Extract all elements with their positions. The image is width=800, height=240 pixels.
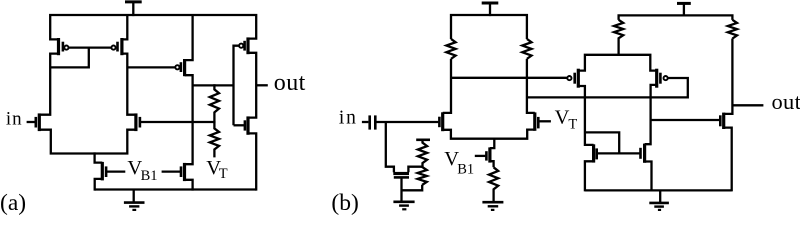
wire common source M10/M11: [443, 130, 535, 139]
wire mirror gates M1-M2: [69, 46, 112, 48]
nmos M9 (second stage sink): [183, 163, 186, 181]
pmos M2 (mirror right): [120, 38, 123, 55]
wire M15 drain down to M17: [645, 85, 657, 144]
wire node A down to M10 drain: [443, 59, 451, 113]
ground symbol (a): [133, 190, 135, 203]
wire out tick (a): [256, 84, 268, 86]
svg-text:V: V: [555, 106, 570, 128]
svg-text:(a): (a): [0, 190, 26, 216]
wire C1 to M10 gate: [375, 121, 438, 123]
pmos M1 (diode-connected mirror left): [57, 38, 60, 55]
ground symbol bias network: [393, 201, 414, 204]
resistor R9 (bias chain lower): [418, 167, 427, 185]
nmos M4 (input pair right): [134, 113, 137, 131]
resistor R3 (load left): [446, 39, 455, 59]
wire second stage out to M7/M8 gates node: [193, 84, 234, 86]
wire in tick (b): [362, 121, 369, 123]
nmos M3 (input pair left): [38, 113, 41, 131]
resistor R1 (VT divider top): [210, 84, 219, 123]
resistor R4 (load right): [522, 39, 531, 59]
resistor R7 (output load): [728, 20, 737, 39]
wire mirror gates M16-M17: [598, 152, 641, 154]
pmos M7 (output stage top): [246, 37, 249, 54]
wire M2 drain rail down to M4 drain: [122, 54, 136, 115]
pmos M5 (second stage): [183, 59, 186, 76]
wire node B to M15 gate: [527, 78, 688, 97]
wire common source line second pair: [578, 55, 656, 71]
svg-text:T: T: [219, 166, 228, 182]
wire M8 source to ground corner: [248, 133, 256, 190]
wire M4 gate to R1-R2 node: [141, 121, 215, 123]
power rail VDD (b right): [619, 15, 733, 20]
nmos M11 (VT device b): [533, 112, 536, 130]
wire output node (a): [248, 53, 256, 118]
nmos M17 (mirror out): [643, 144, 646, 163]
svg-text:B1: B1: [457, 162, 474, 178]
nmos M8 (output stage bottom): [246, 116, 249, 134]
wire M12 source to R5: [490, 161, 494, 167]
wire mirror diode connection (M1 drain to gates): [50, 47, 89, 68]
wire input node down to M13: [386, 122, 394, 172]
nmos M18 (output device b): [722, 113, 725, 129]
wire ground line (b): [585, 189, 732, 191]
wire M9 source to ground: [185, 180, 193, 191]
power rail VDD (a) with drops to M1/M7 sources: [50, 15, 256, 39]
nmos M12 (tail b): [488, 147, 491, 162]
nmos M10 (input device b): [441, 112, 444, 131]
svg-text:(b): (b): [331, 190, 358, 216]
wire VB1 to M9 gate: [162, 170, 181, 172]
resistor R2 (VT divider bottom): [210, 121, 219, 157]
wire node B down to M11 drain: [527, 59, 535, 113]
wire M2 drain to M5 gate: [127, 66, 175, 68]
capacitor C1 input: [368, 115, 371, 129]
wire M16 source to ground: [585, 161, 594, 191]
wire gate link vertical to output devices: [234, 46, 240, 126]
wire out tick (b): [732, 104, 763, 106]
power rail VDD (b left): [451, 15, 527, 39]
wire M14 drain down to M16: [578, 86, 593, 145]
VDD supply symbol (a): [125, 0, 142, 3]
wire tail node (M3/M4 sources): [39, 130, 136, 154]
wire bias chain bottom to M13 gate/ground: [402, 185, 423, 191]
nmos M16 (mirror diode): [592, 144, 595, 162]
VDD supply symbol (b right): [677, 2, 691, 5]
svg-text:in: in: [6, 109, 23, 130]
nmos M6 (tail current source): [95, 152, 103, 162]
wire output node (b): [724, 39, 733, 114]
resistor R6 (pair tail): [614, 20, 623, 56]
resistor R8 (bias chain upper): [418, 140, 427, 167]
wire M6 source to ground: [95, 179, 103, 191]
ground symbol (b): [659, 190, 661, 202]
ground symbol tail (b): [482, 201, 503, 204]
wire M5 drain rail down to M9 drain: [185, 75, 193, 164]
wire in tick (a): [27, 121, 35, 123]
wire ground line (a): [95, 188, 257, 190]
svg-text:in: in: [339, 108, 358, 129]
wire tail drain drop (b): [490, 138, 494, 149]
pmos M15 (second pair right): [655, 69, 658, 88]
pmos M14 (second pair left): [577, 69, 580, 88]
wire M18 source to ground corner: [724, 128, 732, 192]
wire node A to M14 gate: [451, 77, 567, 79]
wire M1 drain rail down to M3 drain: [39, 54, 58, 115]
terminal bar bias chain: [416, 139, 430, 142]
svg-text:out: out: [772, 89, 800, 114]
nmos M13 (bias network, rotated): [393, 172, 409, 175]
wire M16 diode connection: [585, 132, 619, 154]
svg-text:out: out: [274, 70, 306, 96]
svg-text:B1: B1: [141, 168, 158, 184]
resistor R5 (degeneration): [489, 167, 498, 201]
wire mirror output to M18 gate: [651, 119, 720, 121]
wire M17 source to ground: [645, 162, 652, 192]
svg-text:T: T: [568, 116, 577, 132]
VDD supply symbol (b left): [482, 2, 499, 5]
